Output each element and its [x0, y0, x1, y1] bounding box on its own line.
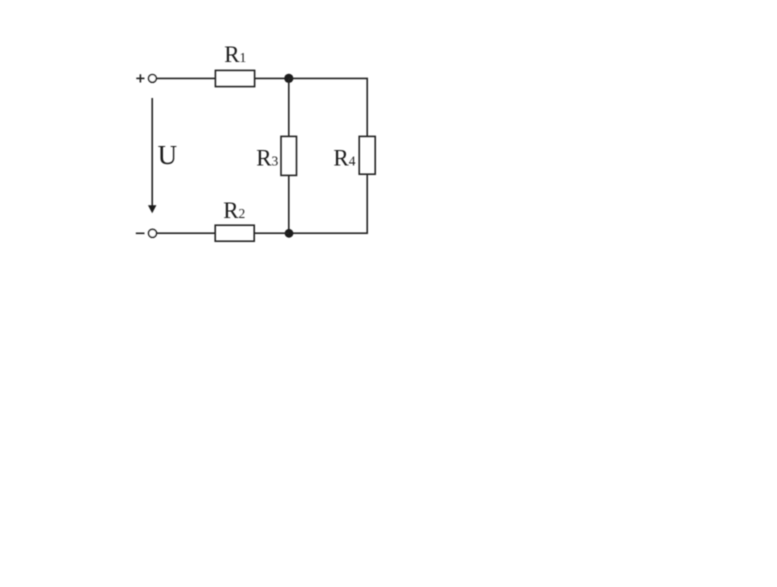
svg-text:R3: R3 — [256, 146, 278, 171]
wire: R1 to node A — [255, 77, 289, 79]
svg-text:R2: R2 — [223, 198, 245, 223]
wire: node A to R3 — [288, 78, 290, 136]
svg-text:R4: R4 — [333, 146, 355, 171]
node B (bottom junction dot) — [285, 229, 294, 238]
voltage arrow U — [148, 98, 177, 213]
node A (top junction dot) — [284, 74, 293, 83]
minus sign (− terminal marking) — [136, 232, 145, 234]
wire: + terminal to R1 — [156, 77, 215, 79]
wire: R3 to node B — [288, 175, 290, 233]
resistor R2 — [215, 198, 254, 241]
resistor R1 — [215, 42, 254, 86]
terminal circle (negative input) — [149, 229, 157, 237]
resistor R3 — [256, 136, 296, 175]
wire: − terminal to R2 — [157, 232, 216, 234]
svg-text:R1: R1 — [224, 42, 246, 67]
wire: R2 to node B — [254, 232, 289, 234]
plus sign (+ terminal marking) — [136, 74, 144, 82]
wire: node A to top-right corner — [289, 78, 367, 136]
wire: R4 to bottom-right corner — [289, 174, 367, 233]
resistor R4 — [333, 136, 375, 174]
terminal circle (positive input) — [149, 75, 157, 83]
svg-text:U: U — [158, 140, 178, 170]
